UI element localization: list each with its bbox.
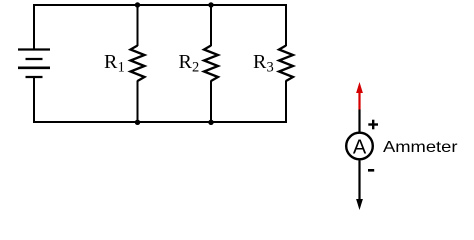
resistor R2 (204, 46, 218, 82)
wire R1 top lead (137, 5, 139, 46)
wire R2 top lead (210, 5, 212, 46)
wire battery bottom lead (33, 77, 35, 123)
wire R1 bottom lead (137, 81, 139, 123)
wire bottom rail (33, 121, 287, 123)
red current arrow (up, + terminal) (356, 82, 363, 110)
svg-text:R: R (253, 51, 267, 73)
svg-text:1: 1 (118, 59, 125, 75)
node junction top R2 (208, 2, 213, 7)
label R2 (179, 51, 200, 75)
battery B1 (18, 50, 50, 78)
label - (368, 169, 374, 172)
wire top rail (33, 4, 287, 6)
svg-text:R: R (179, 51, 193, 73)
label R1 (104, 51, 125, 75)
resistor R1 (131, 46, 145, 82)
ammeter A1 (346, 133, 373, 160)
svg-text:Ammeter: Ammeter (383, 139, 458, 156)
svg-text:2: 2 (192, 59, 199, 75)
node junction top R1 (135, 2, 140, 7)
resistor R3 (279, 46, 293, 82)
wire R3 bottom lead (285, 81, 287, 124)
wire battery top lead (33, 4, 35, 50)
black current arrow (down, - terminal) (356, 160, 363, 210)
svg-text:R: R (104, 51, 118, 73)
node junction bottom R2 (208, 120, 213, 125)
label R3 (253, 51, 274, 75)
wire R2 bottom lead (210, 81, 212, 123)
wire R3 top lead (285, 4, 287, 46)
svg-text:3: 3 (267, 59, 274, 75)
label + (368, 120, 378, 130)
node junction bottom R1 (135, 120, 140, 125)
wire ammeter top lead (358, 110, 360, 133)
svg-text:A: A (353, 136, 367, 158)
